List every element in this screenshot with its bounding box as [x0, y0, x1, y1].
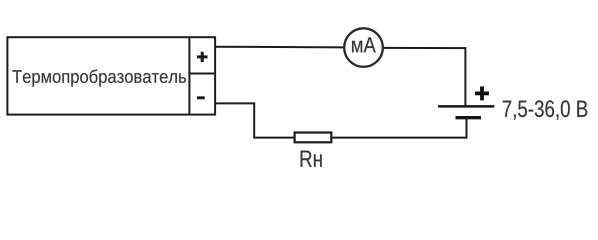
transducer box U1 outline — [7, 37, 215, 114]
wire: + terminal to meter — [215, 46, 344, 49]
milliammeter U2 circle — [344, 28, 383, 67]
battery polarity mark + — [475, 86, 489, 100]
battery value 7,5-36,0 В — [503, 100, 588, 120]
terminal + — [197, 52, 208, 62]
meter label мА — [352, 37, 376, 52]
resistor RH body — [295, 133, 332, 143]
resistor label Rн — [301, 151, 322, 167]
wire: down to battery + — [464, 47, 466, 106]
battery B1 negative plate — [456, 116, 482, 119]
wire: riser to - level — [253, 103, 255, 138]
wire: battery - down — [466, 118, 468, 139]
wire: to - terminal — [215, 102, 255, 104]
label Термопробразователь — [12, 69, 186, 86]
battery B1 positive plate — [438, 105, 494, 108]
wire: meter to corner — [383, 47, 465, 49]
terminal - — [197, 96, 205, 99]
wire: bottom right segment — [331, 137, 467, 139]
terminal cell divider — [189, 73, 215, 75]
terminal column divider — [188, 37, 190, 114]
wire: bottom left segment — [254, 137, 294, 139]
